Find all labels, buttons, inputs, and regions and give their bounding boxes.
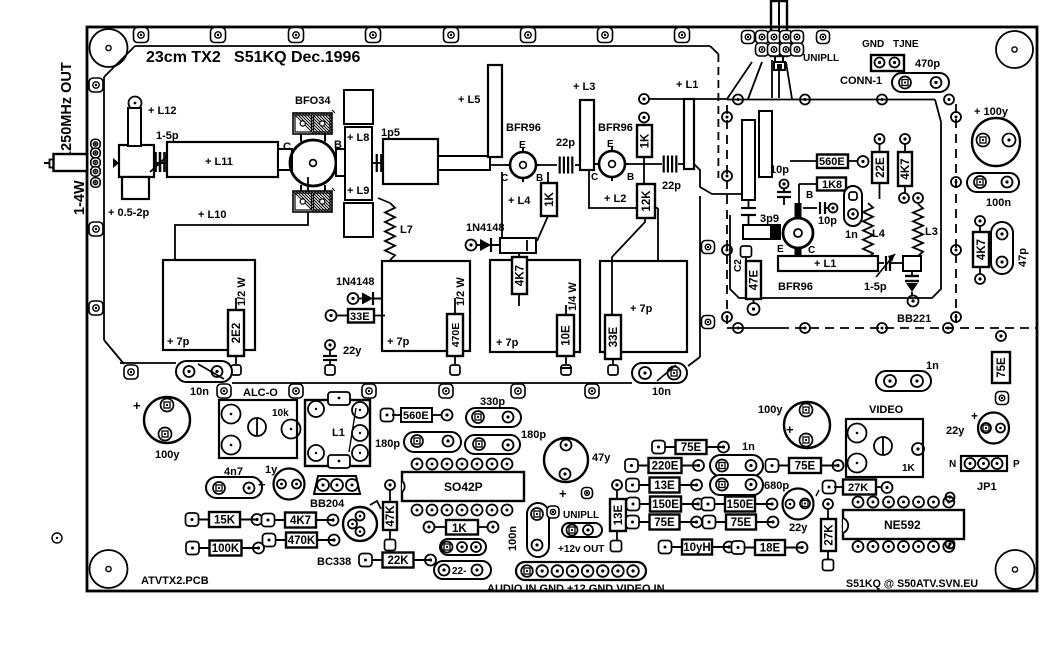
svg-text:100n: 100n xyxy=(507,526,519,551)
wire collector2 xyxy=(589,170,658,261)
transistor BFR96 second xyxy=(595,147,629,181)
capacitor 1n audio xyxy=(710,455,763,476)
microstrip 1p5 xyxy=(383,139,438,184)
svg-text:100K: 100K xyxy=(212,543,240,555)
svg-text:150E: 150E xyxy=(727,499,754,511)
resistor 4K7 stage3 xyxy=(512,253,527,306)
inductor L3 PLL xyxy=(913,204,923,256)
1N4148 left symbol xyxy=(348,292,383,305)
SO42P pin bottom 2 xyxy=(427,505,438,516)
svg-text:BFR96: BFR96 xyxy=(598,122,633,134)
svg-text:N: N xyxy=(949,459,956,470)
svg-text:680p: 680p xyxy=(764,480,789,492)
resistor 75E row2 xyxy=(766,458,844,473)
SO42P pin top 7 xyxy=(502,459,513,470)
label 180p right xyxy=(521,429,546,441)
L1 audio pads xyxy=(308,401,368,461)
label 0.5-2p xyxy=(108,207,150,219)
PLL right pad 2 xyxy=(951,177,961,187)
mounting pad top row 3 xyxy=(289,28,304,43)
svg-text:C: C xyxy=(283,141,291,153)
svg-text:75E: 75E xyxy=(996,357,1008,378)
svg-text:UNIPLL: UNIPLL xyxy=(803,53,839,64)
mounting pad top row 1 xyxy=(134,28,149,43)
SO42P pin bottom 3 xyxy=(442,505,453,516)
inner outline top-left diagonal xyxy=(104,46,135,77)
svg-text:S51KQ @ S50ATV.SVN.EU: S51KQ @ S50ATV.SVN.EU xyxy=(846,578,978,590)
coil block L1 audio xyxy=(305,400,370,466)
svg-text:10yH: 10yH xyxy=(683,542,711,554)
diode BB221 xyxy=(905,271,919,307)
pad right edge 1 xyxy=(946,493,955,502)
UNIPLL pad 10 xyxy=(791,43,804,56)
PLL bottom pad 4 xyxy=(943,323,953,333)
svg-text:220E: 220E xyxy=(652,461,679,473)
NE592 pin top 1 xyxy=(853,497,864,508)
label 22y left xyxy=(343,345,362,357)
PLL strip A xyxy=(742,120,755,200)
svg-text:1-4W: 1-4W xyxy=(72,180,88,215)
mounting pad mid row 6 xyxy=(585,384,599,398)
label 330p xyxy=(480,396,505,408)
PLL bottom pad 1 xyxy=(733,323,743,333)
resistor 22K xyxy=(359,553,436,568)
label C first xyxy=(501,173,508,184)
resistor 75E row4 left xyxy=(626,515,702,530)
svg-text:22y: 22y xyxy=(343,345,362,357)
wires UNIPLL to PLL xyxy=(727,60,792,99)
resistor 13E row3 xyxy=(626,478,702,493)
IC SO42P xyxy=(402,472,524,501)
label B second xyxy=(627,172,634,183)
svg-text:UNIPLL: UNIPLL xyxy=(563,510,599,521)
label 100y video xyxy=(758,404,783,416)
SO42P pin top 1 xyxy=(412,459,423,470)
PLL top pad 1 xyxy=(733,95,743,105)
mounting pad left column 2 xyxy=(89,222,103,236)
capacitor 10n second xyxy=(632,363,687,383)
PLL left pad 3 xyxy=(722,245,732,255)
svg-text:+ L10: + L10 xyxy=(198,209,226,221)
resistor 47K audio xyxy=(383,480,397,540)
svg-text:+: + xyxy=(786,422,794,437)
connector pin 2 xyxy=(536,565,548,577)
label L4 mid xyxy=(508,195,531,207)
capacitor 47y xyxy=(544,438,588,501)
corner hole top-left xyxy=(90,29,128,67)
SO42P pin top 4 xyxy=(457,459,468,470)
svg-text:+: + xyxy=(258,477,266,492)
capacitor to 1p5 xyxy=(373,154,386,172)
wire L5bar to transistor xyxy=(490,164,510,166)
label L11 xyxy=(205,156,233,168)
resistor 4K7 PLL xyxy=(898,134,912,203)
pad below 75E right xyxy=(996,392,1009,405)
mounting pad top row 6 xyxy=(521,28,536,43)
diode 1N4148 right xyxy=(466,238,501,252)
mounting pad mid row 2 xyxy=(289,384,303,398)
resistor 12K xyxy=(637,166,655,218)
svg-text:1n: 1n xyxy=(742,441,755,453)
SO42P pin bottom 1 xyxy=(412,505,423,516)
svg-text:4K7: 4K7 xyxy=(976,239,988,260)
resistor 33E stage4 xyxy=(605,315,621,364)
svg-text:22y: 22y xyxy=(946,425,965,437)
L1 audio tab bottom xyxy=(328,455,350,468)
svg-text:JP1: JP1 xyxy=(977,481,997,493)
label VIDEO xyxy=(869,404,904,416)
cap trio oval xyxy=(440,539,486,555)
capacitor 47p xyxy=(991,222,1013,274)
capacitor 180p left xyxy=(404,432,461,452)
coax pads xyxy=(91,139,101,187)
diode 1N4148 left xyxy=(336,276,375,288)
wire pad to PLL top xyxy=(649,98,727,100)
SO42P pin top 3 xyxy=(442,459,453,470)
label +12v OUT xyxy=(558,544,604,555)
svg-text:27K: 27K xyxy=(848,482,868,494)
PLL right pad 1 xyxy=(951,112,961,122)
svg-text:BFR96: BFR96 xyxy=(778,281,813,293)
label L3 stage xyxy=(573,81,595,93)
PLL top pad 2 xyxy=(800,95,810,105)
corner hole top-right xyxy=(996,31,1033,68)
wire cross to L11 xyxy=(154,162,168,164)
svg-text:+ L11: + L11 xyxy=(205,156,233,168)
resistor 10E xyxy=(557,305,574,364)
label 10n first xyxy=(190,386,209,398)
label P xyxy=(1013,459,1020,470)
emitter strip xyxy=(743,225,781,239)
label L1 stage xyxy=(676,79,698,91)
IC NE592 xyxy=(843,510,964,539)
mounting pad row2 left xyxy=(124,365,138,379)
varactor 1-5p symbol xyxy=(876,254,903,277)
label 1y xyxy=(265,464,278,476)
corner hole bottom-right xyxy=(996,550,1035,589)
svg-text:75E: 75E xyxy=(654,517,675,529)
NE592 pin bottom 5 xyxy=(913,541,924,552)
label L10 xyxy=(198,209,226,221)
resistor 33E left xyxy=(326,309,386,323)
resistor 1K audio xyxy=(424,520,499,535)
svg-text:+: + xyxy=(971,409,978,423)
label BB204 xyxy=(310,498,345,510)
pad 2E2 bottom xyxy=(231,365,241,375)
transistor BFR96 first xyxy=(506,148,540,182)
svg-text:E: E xyxy=(777,244,784,255)
label L1 audio xyxy=(332,427,345,439)
trimmer video 1K xyxy=(846,419,924,477)
wire collector1 down xyxy=(501,172,503,238)
resistor 4K7 right xyxy=(973,216,989,284)
resistor 15K xyxy=(186,512,263,527)
svg-text:22y: 22y xyxy=(789,522,808,534)
resistor 10E bottom tick xyxy=(560,367,572,369)
pad 47K bottom xyxy=(385,540,396,551)
UNIPLL pad 9 xyxy=(780,43,793,56)
mounting pad PLL left lower xyxy=(702,316,715,329)
svg-text:+ L4: + L4 xyxy=(508,195,531,207)
capacitor 10p first PLL xyxy=(777,180,791,206)
capacitor 3p9 xyxy=(741,200,756,226)
resistor 470E xyxy=(447,298,463,364)
svg-text:1N4148: 1N4148 xyxy=(336,276,375,288)
svg-text:L3: L3 xyxy=(925,226,938,238)
SO42P pin bottom 5 xyxy=(472,505,483,516)
label 1p5 xyxy=(381,127,400,139)
svg-text:4K7: 4K7 xyxy=(515,265,527,286)
BFO34 emitter pad top xyxy=(293,110,335,134)
transistor BC338 xyxy=(343,501,381,541)
svg-text:10p: 10p xyxy=(770,164,789,176)
svg-text:CONN-1: CONN-1 xyxy=(840,75,882,87)
label E first xyxy=(519,140,526,151)
svg-text:10n: 10n xyxy=(190,386,209,398)
svg-text:GND: GND xyxy=(862,39,884,50)
resistor 470K xyxy=(263,533,340,548)
svg-text:+ L8: + L8 xyxy=(347,132,369,144)
svg-text:13E: 13E xyxy=(613,504,625,525)
svg-text:C: C xyxy=(808,245,815,256)
connector pin 8 xyxy=(627,565,639,577)
svg-text:22K: 22K xyxy=(387,555,409,567)
svg-text:E: E xyxy=(519,140,526,151)
label L8 xyxy=(347,132,369,144)
NE592 pin top 4 xyxy=(898,497,909,508)
label quarter watt xyxy=(567,282,579,311)
svg-text:ALC-O: ALC-O xyxy=(243,387,278,399)
connector pin 1 xyxy=(521,565,533,577)
crystal 1n PLL xyxy=(844,186,862,226)
svg-text:BFR96: BFR96 xyxy=(506,122,541,134)
L11 to BFO34 arm xyxy=(278,149,292,170)
connector audio video xyxy=(516,562,646,580)
diode body jumper xyxy=(500,238,536,253)
PLL strip B xyxy=(759,111,772,177)
capacitor 180p right xyxy=(465,435,520,454)
PLL right pad 4 xyxy=(951,312,961,322)
NE592 pin bottom 6 xyxy=(928,541,939,552)
PLL bottom pad 2 xyxy=(800,323,810,333)
label 10n second xyxy=(652,386,671,398)
svg-text:C: C xyxy=(591,172,598,183)
mounting pad PLL left upper xyxy=(702,241,715,254)
capacitor 22y right xyxy=(978,413,1009,444)
microstrip below L9 xyxy=(344,203,373,237)
SO42P pin top 6 xyxy=(487,459,498,470)
svg-text:1K: 1K xyxy=(902,463,916,474)
svg-text:75E: 75E xyxy=(681,442,702,454)
svg-text:180p: 180p xyxy=(375,438,400,450)
mounting pad left column 1 xyxy=(89,78,103,92)
inner outline right step xyxy=(710,46,718,178)
resistor 560E xyxy=(790,155,869,169)
svg-text:100y: 100y xyxy=(758,404,783,416)
svg-text:10E: 10E xyxy=(561,325,573,346)
label BFR96 PLL xyxy=(778,281,813,293)
UNIPLL pad 8 xyxy=(768,43,781,56)
label plus 22y right xyxy=(971,409,978,423)
pad 33E bottom xyxy=(608,365,618,375)
label C PLL xyxy=(808,245,815,256)
svg-text:+: + xyxy=(133,398,141,413)
resistor 1K second xyxy=(637,125,652,166)
pad base2 xyxy=(639,113,649,123)
inductor L4 PLL xyxy=(863,203,873,258)
label 47p xyxy=(1017,248,1029,267)
svg-text:33E: 33E xyxy=(350,311,370,323)
capacitor 1n right xyxy=(876,371,931,391)
SO42P pin bottom 4 xyxy=(457,505,468,516)
stage box 2 xyxy=(382,261,470,351)
trimmer ALC 10k xyxy=(219,400,301,458)
UNIPLL pad 4 xyxy=(780,31,793,44)
svg-text:+ 100y: + 100y xyxy=(974,106,1009,118)
label C2 xyxy=(733,259,744,272)
mounting pad mid row 4 xyxy=(439,384,453,398)
microstrip L11 xyxy=(167,142,278,177)
label 680p xyxy=(764,480,789,492)
label 1K video xyxy=(902,463,916,474)
trimmer capacitor 1-5p xyxy=(150,148,176,172)
svg-text:47E: 47E xyxy=(749,269,761,290)
PLL top line xyxy=(727,99,935,101)
label BB221 xyxy=(897,313,931,325)
NE592 pin top 3 xyxy=(883,497,894,508)
1K to diode lead xyxy=(537,216,548,241)
label N xyxy=(949,459,956,470)
microstrip L1 stage xyxy=(684,99,694,169)
capacitor 4n7 xyxy=(206,477,262,498)
label 7p box1 xyxy=(167,336,190,348)
svg-text:150E: 150E xyxy=(652,499,679,511)
inner outline left vertical xyxy=(103,77,105,340)
resistor 220E xyxy=(625,458,704,473)
wire base1 down xyxy=(547,172,549,183)
capacitor 22p second xyxy=(625,156,684,173)
connector pin 3 xyxy=(552,565,564,577)
label L7 xyxy=(400,224,413,236)
BFO34 collector label C xyxy=(283,141,291,153)
PLL right pad 3 xyxy=(951,245,961,255)
mounting pad mid row 5 xyxy=(511,384,525,398)
svg-text:1-5p: 1-5p xyxy=(156,130,179,142)
svg-text:+12v OUT: +12v OUT xyxy=(558,544,604,555)
wire L1 to PLL xyxy=(694,164,742,194)
label CONN-1 xyxy=(840,75,882,87)
svg-text:75E: 75E xyxy=(731,517,752,529)
connector UNIPLL bottom xyxy=(562,523,602,537)
svg-text:13E: 13E xyxy=(654,480,675,492)
svg-text:L7: L7 xyxy=(400,224,413,236)
svg-text:B: B xyxy=(806,190,813,201)
svg-text:15K: 15K xyxy=(214,515,236,527)
svg-text:+ L1: + L1 xyxy=(814,258,836,270)
pad 10E bottom xyxy=(561,365,571,375)
inner outline left-bottom diagonal xyxy=(104,340,124,364)
svg-text:2E2: 2E2 xyxy=(231,323,243,343)
label L3 PLL xyxy=(925,226,938,238)
label L9 xyxy=(347,185,369,197)
label 1n right xyxy=(926,360,939,372)
svg-text:22p: 22p xyxy=(662,180,681,192)
svg-text:10k: 10k xyxy=(272,408,289,419)
stage box 3 xyxy=(490,260,580,352)
label ALC-O xyxy=(243,387,278,399)
pad 47E top xyxy=(741,246,752,257)
svg-text:470p: 470p xyxy=(915,58,940,70)
mounting pad mid row 1 xyxy=(217,384,231,398)
svg-text:BB221: BB221 xyxy=(897,313,931,325)
stage box 1 xyxy=(163,260,255,350)
svg-text:1/4 W: 1/4 W xyxy=(567,282,579,311)
svg-text:+ 0.5-2p: + 0.5-2p xyxy=(108,207,150,219)
label L12 xyxy=(148,105,176,117)
svg-text:10p: 10p xyxy=(818,215,837,227)
mounting pad top row 4 xyxy=(366,28,381,43)
pad 47E bottom xyxy=(748,303,760,315)
svg-text:+ L9: + L9 xyxy=(347,185,369,197)
resistor 150E left xyxy=(627,497,704,512)
varactor pad strip xyxy=(903,256,921,271)
label E second xyxy=(607,139,614,150)
resistor 1K first xyxy=(541,183,557,216)
resistor 13E vertical xyxy=(610,480,626,540)
svg-text:VIDEO: VIDEO xyxy=(869,404,904,416)
svg-text:1K: 1K xyxy=(544,191,556,206)
svg-text:4K7: 4K7 xyxy=(900,158,912,179)
UNIPLL pad 2 xyxy=(756,31,769,44)
svg-text:10n: 10n xyxy=(652,386,671,398)
pad right edge 2 xyxy=(946,540,955,549)
svg-text:B: B xyxy=(627,172,634,183)
svg-text:1/2 W: 1/2 W xyxy=(455,277,467,306)
transistor BFO34 body xyxy=(290,134,336,192)
label 470p top xyxy=(915,58,940,70)
svg-text:+ L3: + L3 xyxy=(573,81,595,93)
capacitor 680p xyxy=(710,475,763,495)
PLL bottom dashed line xyxy=(727,327,1037,329)
svg-text:18E: 18E xyxy=(760,543,781,555)
svg-text:+ L2: + L2 xyxy=(604,193,626,205)
pad 470E bottom xyxy=(450,365,460,375)
svg-text:TJNE: TJNE xyxy=(893,39,919,50)
svg-text:P: P xyxy=(1013,459,1020,470)
svg-text:27K: 27K xyxy=(824,524,836,546)
svg-text:+ L5: + L5 xyxy=(458,94,480,106)
label 7p box3 xyxy=(496,337,519,349)
label 4n7 xyxy=(224,466,243,478)
svg-text:47K: 47K xyxy=(385,505,397,527)
label BFO34 xyxy=(295,95,331,107)
svg-text:C2: C2 xyxy=(733,259,744,272)
PLL bottom pad 3 xyxy=(877,323,887,333)
inductor L7 xyxy=(378,198,395,262)
resistor 75E right xyxy=(992,352,1010,383)
inner outline bottom segment A xyxy=(120,362,176,364)
label 1250MHz OUT xyxy=(59,62,75,159)
capacitor 10n first xyxy=(176,361,232,382)
label half watt 1 xyxy=(236,277,248,306)
coax connector xyxy=(44,154,87,171)
antenna connector xyxy=(771,1,787,62)
svg-text:BB204: BB204 xyxy=(310,498,345,510)
microstrip above L8 xyxy=(344,90,373,124)
NE592 pin top 6 xyxy=(928,497,939,508)
label C second xyxy=(591,172,598,183)
label B first xyxy=(536,173,543,184)
